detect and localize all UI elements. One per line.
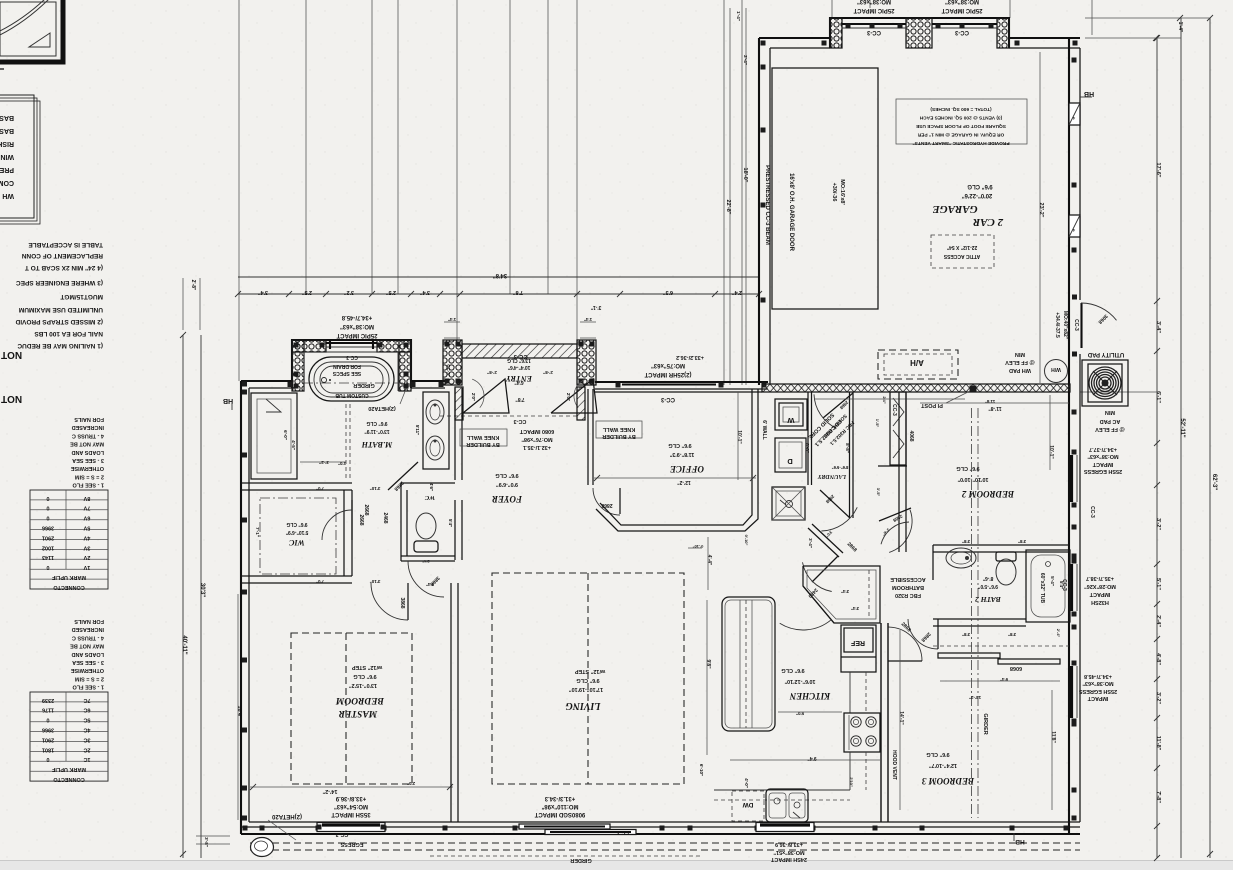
svg-text:NOT: NOT bbox=[1, 393, 22, 404]
svg-text:MIN: MIN bbox=[1015, 351, 1025, 357]
svg-text:8'-8": 8'-8" bbox=[845, 443, 850, 453]
svg-text:6' WALL: 6' WALL bbox=[761, 420, 767, 440]
svg-text:25SH EGRESS: 25SH EGRESS bbox=[1084, 468, 1123, 474]
svg-text:1 - SEE FLO: 1 - SEE FLO bbox=[72, 482, 104, 488]
bath2 door bbox=[908, 619, 938, 649]
svg-text:W: W bbox=[787, 416, 795, 425]
svg-text:IMPACT: IMPACT bbox=[1087, 695, 1108, 701]
svg-text:1'-4": 1'-4" bbox=[736, 11, 741, 21]
svg-text:10'10"-10'0": 10'10"-10'0" bbox=[957, 476, 988, 482]
svg-text:9'6" CLG: 9'6" CLG bbox=[956, 465, 979, 471]
svg-text:HB: HB bbox=[223, 397, 233, 404]
bedroom3 door bbox=[888, 627, 922, 661]
svg-text:2668: 2668 bbox=[363, 504, 369, 515]
knee wall labels bbox=[460, 429, 507, 446]
svg-text:MARK UPLIF: MARK UPLIF bbox=[51, 766, 86, 772]
left wall posts bbox=[242, 390, 247, 395]
exterior wall: master front (top) bbox=[241, 380, 292, 382]
svg-text:7'0": 7'0" bbox=[316, 579, 324, 584]
entry portico left post bbox=[443, 340, 462, 385]
svg-text:5'11": 5'11" bbox=[415, 425, 420, 435]
small 1-4 dims bbox=[444, 321, 460, 323]
svg-text:3'-5": 3'-5" bbox=[876, 488, 881, 497]
svg-text:AC PAD: AC PAD bbox=[1100, 418, 1121, 424]
svg-text:9'6" CLG: 9'6" CLG bbox=[366, 420, 387, 426]
svg-text:2868: 2868 bbox=[601, 502, 612, 508]
svg-text:MO:54"x63": MO:54"x63" bbox=[334, 803, 368, 809]
svg-text:WIC: WIC bbox=[289, 538, 305, 547]
svg-text:IMPACT: IMPACT bbox=[1092, 461, 1113, 467]
svg-text:BEDROOM 2: BEDROOM 2 bbox=[961, 489, 1015, 499]
svg-text:BEDROOM 3: BEDROOM 3 bbox=[921, 776, 975, 786]
svg-text:(2)HETA20: (2)HETA20 bbox=[368, 405, 395, 411]
solid core door bbox=[823, 393, 853, 418]
svg-text:10'6"-12'10": 10'6"-12'10" bbox=[784, 678, 815, 684]
svg-text:20'0"-22'6": 20'0"-22'6" bbox=[962, 192, 993, 198]
mbath soffit dashes bbox=[345, 404, 347, 480]
svg-text:5'10"-6'9": 5'10"-6'9" bbox=[285, 529, 308, 535]
svg-text:12'-2": 12'-2" bbox=[677, 479, 691, 485]
svg-text:1'-5": 1'-5" bbox=[875, 419, 880, 428]
svg-text:2'0": 2'0" bbox=[566, 393, 571, 401]
svg-text:+34.7/-45.8: +34.7/-45.8 bbox=[1084, 673, 1112, 679]
svg-text:3'4": 3'4" bbox=[420, 289, 430, 295]
svg-text:GARAGE: GARAGE bbox=[932, 203, 977, 215]
svg-text:0: 0 bbox=[46, 756, 49, 762]
svg-text:CC-3: CC-3 bbox=[1073, 319, 1079, 331]
svg-text:SEE SPECS: SEE SPECS bbox=[332, 370, 361, 376]
m.bath / wic wall bbox=[241, 482, 352, 484]
kitchen window bbox=[756, 823, 814, 832]
svg-text:22-1/2" X 54": 22-1/2" X 54" bbox=[946, 244, 977, 250]
svg-text:7'0": 7'0" bbox=[316, 486, 324, 491]
svg-text:MO:40"x82": MO:40"x82" bbox=[1062, 311, 1068, 340]
svg-text:OTHERWISE: OTHERWISE bbox=[70, 667, 104, 673]
linen closet 4068 bbox=[890, 392, 906, 465]
svg-text:11'8"-9'3": 11'8"-9'3" bbox=[669, 451, 694, 457]
svg-text:2'10": 2'10" bbox=[849, 777, 854, 787]
garage left wall bbox=[758, 38, 760, 385]
svg-text:1 - SEE FLO: 1 - SEE FLO bbox=[72, 684, 104, 690]
svg-text:WH PAD: WH PAD bbox=[1009, 367, 1031, 373]
svg-text:2 = S = SIM: 2 = S = SIM bbox=[75, 675, 104, 681]
svg-text:REPLACEMENT OF CONN: REPLACEMENT OF CONN bbox=[21, 252, 103, 259]
svg-text:OFFICE: OFFICE bbox=[670, 464, 704, 474]
svg-text:MASTER: MASTER bbox=[339, 708, 379, 718]
svg-text:A/H: A/H bbox=[910, 358, 924, 367]
svg-text:BATHROOM: BATHROOM bbox=[892, 584, 924, 590]
svg-text:10'4"-4'6": 10'4"-4'6" bbox=[507, 364, 530, 370]
svg-text:2'-4": 2'-4" bbox=[743, 55, 748, 65]
master interior dim 16-4 bbox=[237, 594, 239, 820]
svg-text:7'-1": 7'-1" bbox=[255, 527, 260, 537]
svg-text:PRES: PRES bbox=[0, 166, 14, 173]
kitchen island bbox=[722, 597, 775, 731]
closet bypass doors 6068 bbox=[938, 653, 1000, 658]
counter edge bbox=[849, 672, 851, 713]
svg-text:D: D bbox=[787, 457, 793, 466]
svg-text:4V: 4V bbox=[83, 534, 90, 540]
svg-text:(1 NAILING MAY BE REDUC: (1 NAILING MAY BE REDUC bbox=[17, 342, 103, 349]
svg-text:REF: REF bbox=[850, 639, 865, 646]
svg-text:2'5": 2'5" bbox=[302, 289, 312, 295]
svg-text:H32SH: H32SH bbox=[1091, 599, 1109, 605]
svg-text:FOYER: FOYER bbox=[492, 494, 523, 504]
svg-text:6'-1": 6'-1" bbox=[1155, 391, 1161, 403]
svg-text:9080SGD IMPACT: 9080SGD IMPACT bbox=[534, 811, 585, 817]
svg-text:BY BUILDER: BY BUILDER bbox=[466, 441, 500, 447]
svg-text:MO:75"x63": MO:75"x63" bbox=[651, 362, 685, 368]
svg-text:MO:38"x63": MO:38"x63" bbox=[945, 0, 979, 4]
wic door arc bbox=[322, 510, 352, 540]
bath2 sink bbox=[946, 548, 976, 568]
shower stall bbox=[251, 393, 297, 479]
svg-text:FOR NAILS: FOR NAILS bbox=[74, 416, 104, 422]
svg-text:COMP: COMP bbox=[0, 179, 14, 186]
left overall dims 40-11 / 30-3 bbox=[182, 335, 184, 858]
svg-text:(2 MISSED STRAPS PROVID: (2 MISSED STRAPS PROVID bbox=[15, 318, 103, 325]
dimension extension lines, top bbox=[238, 0, 240, 381]
svg-text:7V: 7V bbox=[83, 505, 90, 511]
svg-text:CC-3: CC-3 bbox=[336, 831, 349, 837]
corner detail arc bbox=[0, 0, 50, 36]
svg-text:+33.8/-36.9: +33.8/-36.9 bbox=[335, 795, 366, 801]
svg-text:52'-11": 52'-11" bbox=[1179, 418, 1185, 437]
office south wall bbox=[596, 389, 758, 531]
svg-text:MUGT15/MGT: MUGT15/MGT bbox=[60, 293, 103, 300]
svg-text:2468: 2468 bbox=[382, 512, 388, 523]
svg-text:14'-2": 14'-2" bbox=[322, 788, 337, 794]
svg-text:2'-8": 2'-8" bbox=[543, 370, 553, 375]
svg-text:7'8": 7'8" bbox=[513, 289, 523, 295]
svg-text:34'8": 34'8" bbox=[493, 272, 507, 278]
bedroom3 west wall bbox=[880, 623, 882, 822]
bedroom wing right wall bbox=[1068, 392, 1070, 834]
svg-text:CC-3: CC-3 bbox=[660, 396, 675, 402]
tub girder line bbox=[303, 382, 412, 384]
svg-text:6'-10": 6'-10" bbox=[699, 764, 704, 776]
svg-text:3V: 3V bbox=[83, 544, 90, 550]
svg-text:12'4"-10'7": 12'4"-10'7" bbox=[929, 762, 957, 768]
smart vents note box bbox=[896, 99, 1027, 144]
connector table grid bbox=[30, 490, 108, 589]
svg-text:1801: 1801 bbox=[42, 746, 54, 752]
svg-text:3'8": 3'8" bbox=[1018, 539, 1026, 544]
corner detail frame bbox=[0, 0, 63, 62]
svg-text:35SH IMPACT: 35SH IMPACT bbox=[331, 811, 371, 817]
master tray dashed bbox=[291, 633, 412, 784]
bath2 south wall bbox=[933, 618, 1026, 620]
svg-text:9'6" CLG: 9'6" CLG bbox=[576, 677, 599, 683]
svg-text:OTHERWISE: OTHERWISE bbox=[70, 465, 104, 471]
svg-text:4 - TRUSS C: 4 - TRUSS C bbox=[72, 432, 104, 438]
garage attic vent symbols bbox=[1069, 103, 1080, 125]
girder dash-dot bbox=[971, 408, 973, 818]
svg-text:(2)HETA20: (2)HETA20 bbox=[271, 813, 302, 819]
svg-text:5C: 5C bbox=[83, 717, 90, 723]
svg-text:1176: 1176 bbox=[42, 707, 54, 713]
pantry bbox=[803, 566, 880, 623]
attic access dashed box bbox=[931, 235, 994, 268]
svg-text:4C: 4C bbox=[83, 727, 90, 733]
svg-text:KITCHEN: KITCHEN bbox=[789, 691, 831, 701]
svg-text:BEDROOM: BEDROOM bbox=[335, 695, 385, 705]
svg-text:(4 24" MIN 2X SCAB TO T: (4 24" MIN 2X SCAB TO T bbox=[25, 264, 103, 271]
svg-text:13'6" CLG: 13'6" CLG bbox=[507, 357, 531, 363]
svg-text:7'-8": 7'-8" bbox=[1155, 791, 1161, 803]
svg-text:6'3": 6'3" bbox=[663, 289, 673, 295]
svg-text:4068: 4068 bbox=[908, 430, 914, 441]
svg-text:WIND: WIND bbox=[0, 153, 14, 160]
WH pad circle bbox=[1045, 360, 1068, 383]
svg-text:25SH EGRESS: 25SH EGRESS bbox=[1079, 688, 1118, 694]
hood vent wall bbox=[880, 623, 882, 822]
svg-text:11'-8": 11'-8" bbox=[988, 405, 1002, 411]
svg-text:5V: 5V bbox=[83, 525, 90, 531]
hall pocket doors bbox=[351, 500, 353, 540]
svg-text:+33.8/-36.9: +33.8/-36.9 bbox=[775, 841, 803, 847]
svg-text:CONNECTO: CONNECTO bbox=[53, 776, 85, 782]
svg-text:@ FF ELEV: @ FF ELEV bbox=[1095, 426, 1125, 432]
garage service door 3068 bbox=[1080, 303, 1082, 348]
dryer bbox=[775, 438, 806, 472]
svg-text:3'8": 3'8" bbox=[962, 539, 970, 544]
sliding glass door 9080SGD bbox=[519, 824, 610, 829]
svg-text:UNLIMITED USE MAXIMUM: UNLIMITED USE MAXIMUM bbox=[19, 306, 103, 313]
bottom gray bar bbox=[0, 860, 1233, 870]
svg-text:SQUARE FOOT OF FLOOR SPACE USE: SQUARE FOOT OF FLOOR SPACE USE bbox=[915, 123, 1006, 129]
svg-text:MO:38"x63": MO:38"x63" bbox=[1082, 680, 1114, 686]
svg-text:11'8": 11'8" bbox=[1050, 731, 1056, 743]
wall master suite / living bbox=[454, 388, 456, 480]
svg-text:HB: HB bbox=[1015, 838, 1025, 845]
svg-text:CUSTOM TUB: CUSTOM TUB bbox=[335, 392, 369, 398]
svg-text:0: 0 bbox=[46, 505, 49, 511]
range bbox=[844, 713, 880, 752]
hall door west 2868 bbox=[820, 490, 850, 518]
pantry door 2480 bbox=[803, 586, 834, 623]
master width dim 14-2 bbox=[250, 786, 453, 788]
svg-text:9'6" CLG: 9'6" CLG bbox=[668, 442, 691, 448]
svg-text:6068: 6068 bbox=[1010, 665, 1022, 671]
svg-text:9'0"-6'9": 9'0"-6'9" bbox=[496, 481, 518, 487]
double sink bbox=[766, 789, 808, 822]
svg-text:10'-1": 10'-1" bbox=[736, 430, 742, 444]
exterior wall: bottom bbox=[241, 833, 1080, 835]
svg-text:4'-4": 4'-4" bbox=[706, 555, 712, 566]
svg-text:9'6" CLG: 9'6" CLG bbox=[967, 183, 993, 189]
svg-text:1'0": 1'0" bbox=[338, 461, 346, 466]
svg-text:25PIC IMPACT: 25PIC IMPACT bbox=[853, 7, 894, 13]
svg-text:+35.7/-38.7: +35.7/-38.7 bbox=[1086, 575, 1114, 581]
garage overhead door leaf bbox=[772, 68, 878, 309]
svg-text:+34.7/-37.7: +34.7/-37.7 bbox=[1089, 446, 1117, 452]
svg-text:MARK UPLIF: MARK UPLIF bbox=[51, 574, 86, 580]
wc walls bbox=[400, 483, 402, 561]
svg-text:FOR DRAIN: FOR DRAIN bbox=[333, 363, 361, 369]
svg-text:2901: 2901 bbox=[42, 534, 54, 540]
dishwasher bbox=[732, 791, 764, 821]
bottom-left oval window bbox=[251, 838, 274, 857]
bath2 north wall bbox=[933, 544, 1069, 546]
kitchen sink counter bbox=[714, 789, 850, 791]
pl post bbox=[970, 386, 977, 393]
svg-text:23'-2": 23'-2" bbox=[1038, 203, 1044, 218]
svg-text:1143: 1143 bbox=[42, 554, 54, 560]
right wall window bedroom3 bbox=[1070, 666, 1073, 718]
svg-text:2'-8": 2'-8" bbox=[487, 370, 497, 375]
svg-text:3'-8": 3'-8" bbox=[204, 837, 209, 847]
svg-text:(2)25HR IMPACT: (2)25HR IMPACT bbox=[644, 371, 691, 377]
svg-text:1'-4": 1'-4" bbox=[1177, 22, 1183, 33]
entry portico right post bbox=[577, 340, 596, 385]
svg-text:14'-1": 14'-1" bbox=[898, 711, 904, 725]
bedroom2 door bbox=[881, 522, 909, 544]
svg-text:MO:110"x98": MO:110"x98" bbox=[541, 803, 578, 809]
svg-text:+32.1/-35.1: +32.1/-35.1 bbox=[523, 444, 551, 450]
hall door 2868 west bbox=[812, 556, 838, 582]
garage right wall bbox=[1068, 38, 1070, 300]
svg-text:24SH IMPACT: 24SH IMPACT bbox=[770, 856, 807, 862]
svg-text:3'8": 3'8" bbox=[1008, 632, 1016, 637]
svg-text:MO:76"x98": MO:76"x98" bbox=[521, 436, 553, 442]
svg-text:KNEE WALL: KNEE WALL bbox=[602, 426, 635, 432]
closet dash line bbox=[933, 645, 1069, 647]
svg-text:6V: 6V bbox=[83, 515, 90, 521]
svg-text:MO:38"x63": MO:38"x63" bbox=[857, 0, 891, 4]
exterior wall: office front bbox=[595, 381, 768, 383]
svg-text:3 - SEE SEA: 3 - SEE SEA bbox=[72, 659, 104, 665]
air handler A/H bbox=[878, 350, 958, 379]
svg-text:CC-3: CC-3 bbox=[891, 404, 897, 416]
svg-text:KNEE WALL: KNEE WALL bbox=[466, 434, 499, 440]
svg-text:CC-3': CC-3' bbox=[446, 364, 451, 376]
svg-text:FBC R320: FBC R320 bbox=[895, 592, 921, 598]
svg-text:BASIC: BASIC bbox=[0, 127, 14, 134]
bedroom2 west wall bbox=[898, 392, 900, 552]
svg-text:MAY NOT BE: MAY NOT BE bbox=[70, 441, 104, 447]
svg-text:5'4": 5'4" bbox=[1059, 581, 1064, 589]
svg-text:3'2": 3'2" bbox=[344, 289, 354, 295]
egress dashed path bbox=[250, 842, 1080, 844]
svg-text:13'-2": 13'-2" bbox=[969, 695, 981, 700]
garage left dims 22-8 18-0 bbox=[729, 8, 731, 385]
svg-text:2'-4": 2'-4" bbox=[1056, 629, 1061, 638]
svg-text:17'-6": 17'-6" bbox=[1155, 163, 1161, 178]
svg-text:3'4": 3'4" bbox=[258, 289, 268, 295]
svg-text:(3) VENTS @ 200 SQ. INCHES EAC: (3) VENTS @ 200 SQ. INCHES EACH bbox=[919, 115, 1002, 121]
svg-text:3'-2": 3'-2" bbox=[1155, 692, 1161, 704]
svg-text:8'-6": 8'-6" bbox=[982, 575, 993, 581]
svg-text:6080 IMPACT: 6080 IMPACT bbox=[519, 428, 554, 434]
garage top wall bbox=[759, 37, 830, 39]
svg-text:0: 0 bbox=[46, 717, 49, 723]
garage inner dim 23-2 bbox=[1039, 52, 1041, 383]
office window bbox=[622, 383, 716, 385]
svg-text:M.BATH: M.BATH bbox=[361, 440, 393, 449]
svg-text:2 = S = SIM: 2 = S = SIM bbox=[75, 473, 104, 479]
laundry tub bbox=[772, 487, 805, 520]
svg-text:DW: DW bbox=[742, 801, 754, 808]
svg-text:LOADS AND: LOADS AND bbox=[71, 449, 104, 455]
svg-text:MO:38"x63": MO:38"x63" bbox=[340, 323, 374, 329]
entry jamb hatch left bbox=[455, 387, 463, 420]
svg-text:+34.4/-37.5: +34.4/-37.5 bbox=[1054, 312, 1060, 338]
svg-text:6C: 6C bbox=[83, 707, 90, 713]
svg-text:25PIC IMPACT: 25PIC IMPACT bbox=[941, 7, 982, 13]
tub bay walls bbox=[292, 340, 411, 388]
wic / master wall bbox=[241, 575, 352, 577]
svg-text:60"x32" TUB: 60"x32" TUB bbox=[1039, 573, 1045, 604]
washer bbox=[775, 399, 807, 430]
svg-text:LOADS AND: LOADS AND bbox=[71, 651, 104, 657]
svg-text:8V: 8V bbox=[83, 495, 90, 501]
svg-text:9'6"-5'0": 9'6"-5'0" bbox=[977, 583, 998, 589]
dim 11-8 bottom garage bbox=[920, 402, 1069, 404]
svg-text:7'8": 7'8" bbox=[515, 396, 525, 402]
svg-text:2'4": 2'4" bbox=[882, 396, 887, 403]
svg-text:BASIC: BASIC bbox=[0, 114, 14, 121]
svg-text:UTILITY PAD: UTILITY PAD bbox=[1087, 351, 1124, 357]
svg-text:CC-3: CC-3 bbox=[514, 418, 527, 424]
svg-text:3'10": 3'10" bbox=[370, 486, 381, 491]
svg-text:CC-3: CC-3 bbox=[1089, 506, 1095, 518]
mbath dim 3-2 bbox=[300, 461, 346, 463]
svg-text:ATTIC ACCESS: ATTIC ACCESS bbox=[943, 253, 980, 259]
svg-text:9'6" CLG: 9'6" CLG bbox=[495, 472, 518, 478]
svg-text:1V: 1V bbox=[83, 564, 90, 570]
svg-text:17'10"-19'10": 17'10"-19'10" bbox=[569, 686, 604, 692]
svg-text:w/12" STEP: w/12" STEP bbox=[351, 664, 383, 670]
svg-text:CC-3: CC-3 bbox=[866, 29, 881, 35]
svg-text:9'6" CLG: 9'6" CLG bbox=[353, 673, 376, 679]
svg-text:WH: WH bbox=[2, 192, 14, 199]
svg-text:PROVIDE HYDROSTATIC "SMART VEN: PROVIDE HYDROSTATIC "SMART VENTS" bbox=[912, 140, 1009, 146]
svg-text:3'10": 3'10" bbox=[370, 579, 381, 584]
master egress window bbox=[317, 823, 385, 832]
svg-text:1'4": 1'4" bbox=[584, 317, 592, 322]
corner detail triangle bbox=[29, 33, 50, 47]
svg-text:PRESTRESSED CC-3 BEAM: PRESTRESSED CC-3 BEAM bbox=[764, 165, 770, 245]
svg-text:ENTRY: ENTRY bbox=[505, 374, 533, 383]
svg-text:40'-11": 40'-11" bbox=[181, 635, 187, 654]
wic right wall bbox=[343, 490, 345, 576]
svg-text:2'-4": 2'-4" bbox=[1155, 615, 1161, 627]
svg-text:+34.7/-45.8: +34.7/-45.8 bbox=[341, 314, 372, 320]
office door 2868 bbox=[619, 488, 621, 514]
svg-text:LIVING: LIVING bbox=[565, 700, 602, 711]
svg-text:3'-2": 3'-2" bbox=[319, 460, 329, 465]
svg-text:5'-1": 5'-1" bbox=[1155, 578, 1161, 590]
svg-text:MO:28"X26": MO:28"X26" bbox=[1084, 583, 1116, 589]
svg-text:CC-3: CC-3 bbox=[346, 354, 358, 360]
top right connector dims bbox=[1085, 17, 1210, 19]
svg-text:w/12" STEP: w/12" STEP bbox=[574, 668, 606, 674]
office walls bbox=[587, 389, 589, 485]
svg-text:0'-10": 0'-10" bbox=[744, 535, 749, 546]
svg-text:BY BUILDER: BY BUILDER bbox=[602, 433, 636, 439]
svg-text:0: 0 bbox=[46, 515, 49, 521]
right dim line inner bbox=[1156, 38, 1158, 858]
svg-text:3'-4": 3'-4" bbox=[1155, 321, 1161, 333]
svg-text:3'-2": 3'-2" bbox=[1155, 518, 1161, 530]
bath2 toilet bbox=[996, 559, 1016, 585]
svg-text:MO:38"x51": MO:38"x51" bbox=[773, 849, 805, 855]
svg-text:NOT: NOT bbox=[1, 349, 22, 360]
svg-text:9'6" CLG: 9'6" CLG bbox=[926, 751, 949, 757]
right wall window bath2 bbox=[1070, 564, 1073, 611]
svg-text:TABLE IS ACCEPTABLE: TABLE IS ACCEPTABLE bbox=[28, 241, 103, 248]
